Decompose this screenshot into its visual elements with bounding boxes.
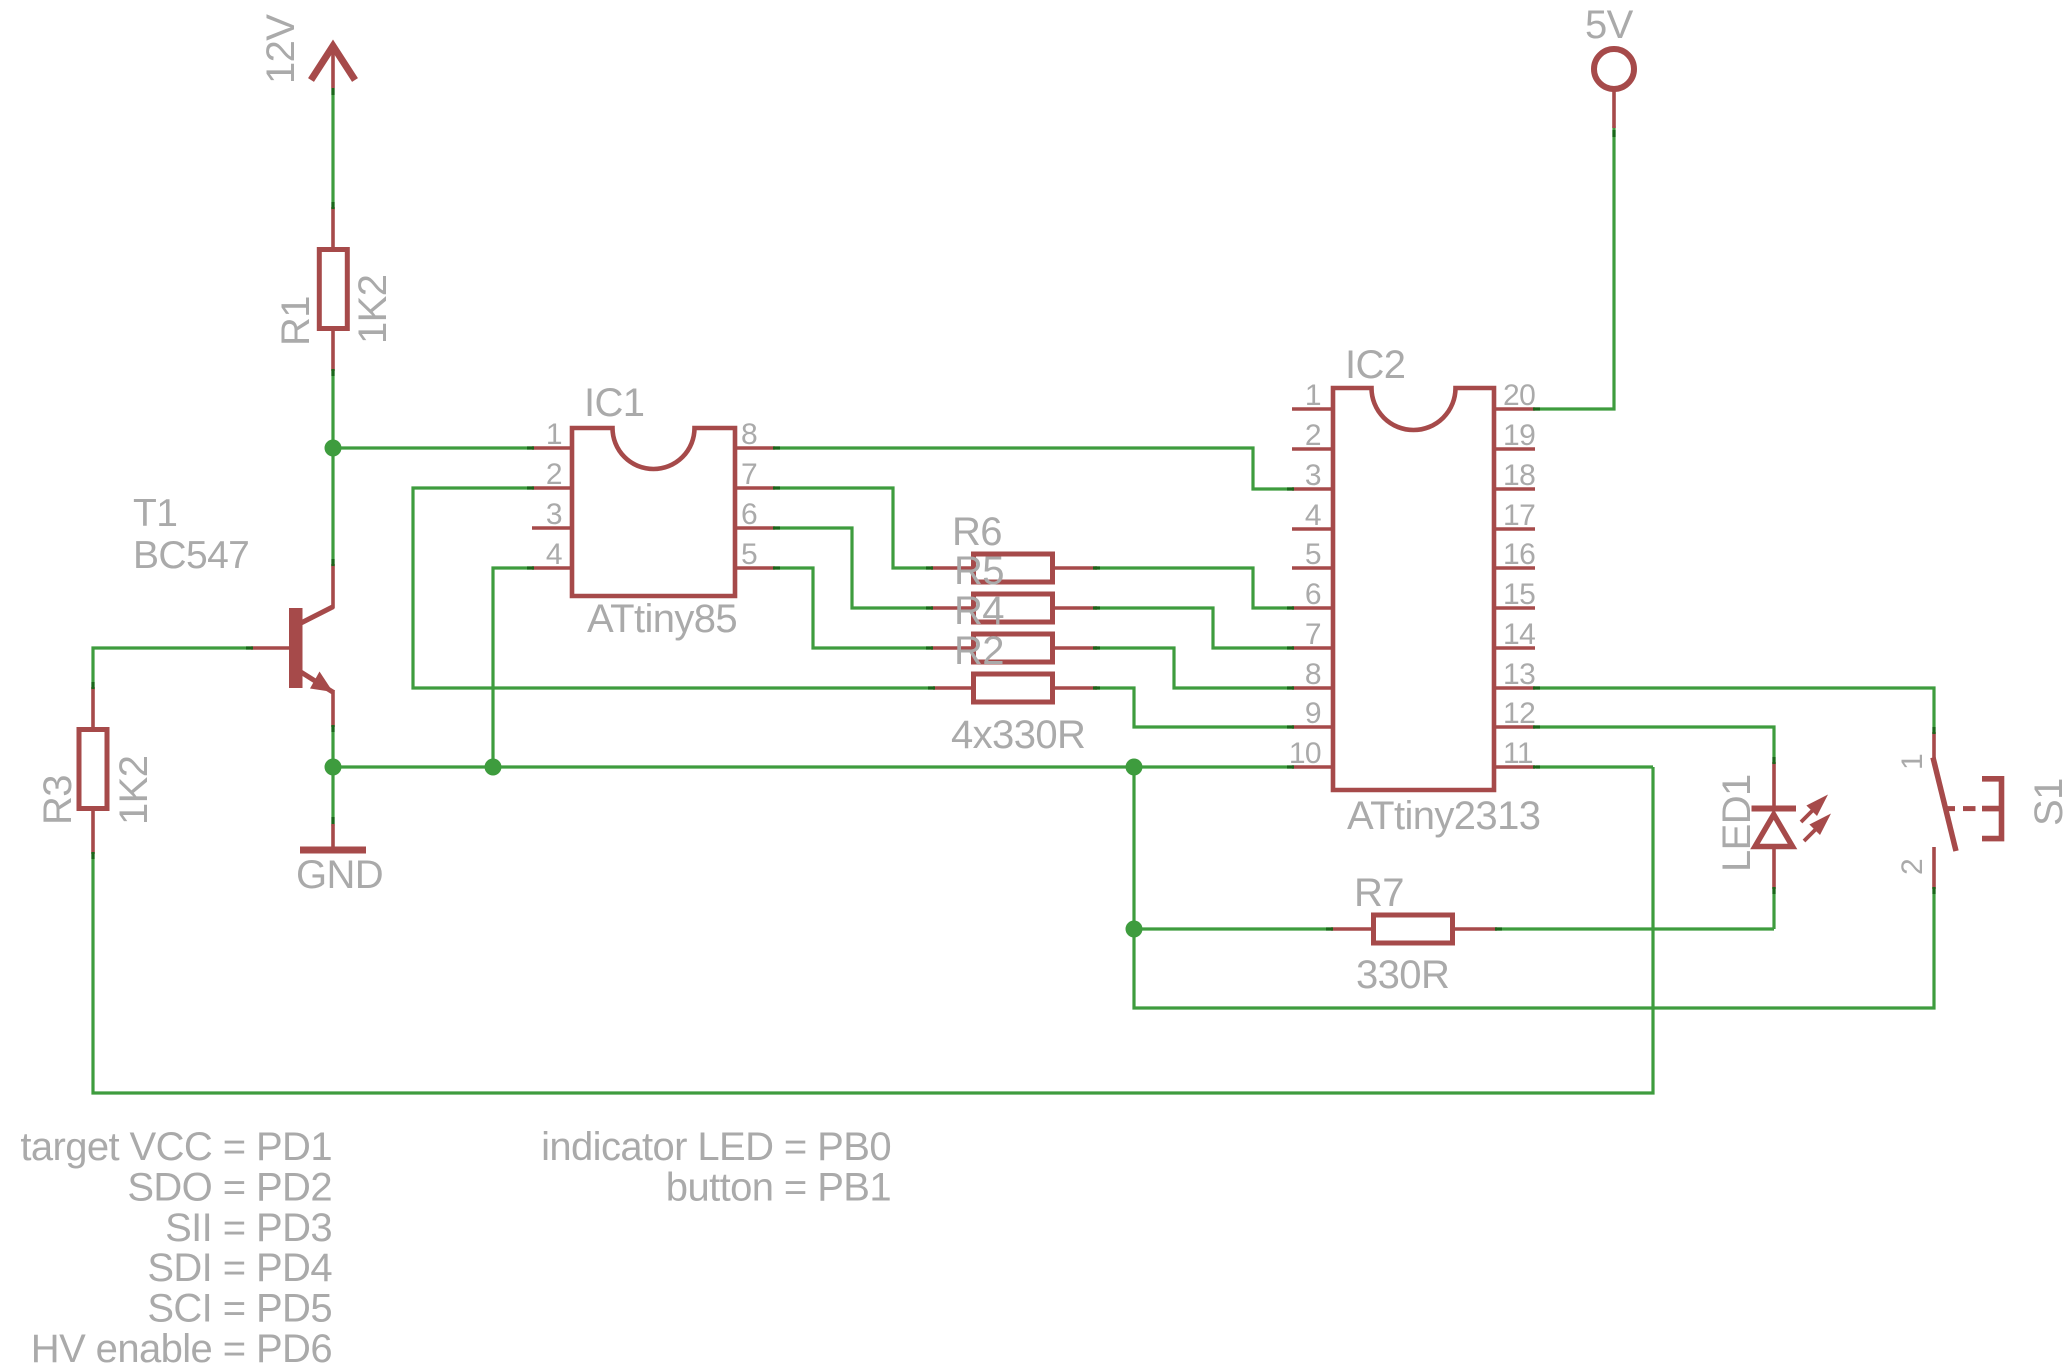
IC1 pin 6 bbox=[735, 526, 775, 530]
svg-text:2: 2 bbox=[546, 458, 562, 491]
transistor T1 base bar bbox=[289, 608, 303, 688]
resistor R2 pin 2 bbox=[1054, 686, 1097, 690]
svg-text:6: 6 bbox=[741, 498, 757, 531]
wire IC1 pin 6 to R5 bbox=[775, 528, 933, 608]
wire R7 to LED1 bbox=[1495, 927, 1774, 930]
resistor R4 bbox=[974, 634, 1053, 662]
resistor R2 pin 1 bbox=[933, 686, 975, 690]
node E junction bbox=[1126, 921, 1143, 938]
wire IC1 pin 2 to R2 bbox=[413, 488, 935, 688]
svg-text:T1: T1 bbox=[133, 492, 177, 535]
svg-text:ATtiny85: ATtiny85 bbox=[587, 597, 737, 641]
svg-text:17: 17 bbox=[1503, 499, 1535, 532]
svg-text:10: 10 bbox=[1289, 737, 1321, 770]
svg-text:IC2: IC2 bbox=[1345, 343, 1405, 387]
resistor R1 bbox=[319, 250, 347, 329]
resistor R6 pin 1 bbox=[931, 566, 973, 570]
svg-text:13: 13 bbox=[1503, 658, 1535, 691]
svg-text:5V: 5V bbox=[1585, 3, 1634, 47]
svg-text:5: 5 bbox=[1305, 538, 1321, 571]
svg-text:R3: R3 bbox=[36, 775, 80, 825]
svg-text:R1: R1 bbox=[274, 296, 318, 346]
svg-text:GND: GND bbox=[296, 853, 383, 897]
IC2 pins right bbox=[1494, 407, 1535, 411]
IC2 body bbox=[1333, 388, 1494, 790]
svg-text:7: 7 bbox=[1305, 618, 1321, 651]
resistor R4 pin 1 bbox=[931, 646, 973, 650]
wire node C to IC1 pin 4 bbox=[493, 568, 534, 767]
svg-text:1: 1 bbox=[1896, 754, 1929, 770]
wire to IC2 pin 11 bbox=[1536, 765, 1653, 768]
LED1 light arrow 1 bbox=[1801, 809, 1814, 822]
IC1 pin 5 bbox=[735, 566, 775, 570]
svg-text:SII = PD3: SII = PD3 bbox=[165, 1206, 332, 1250]
node A junction bbox=[325, 440, 342, 457]
svg-text:3: 3 bbox=[1305, 459, 1321, 492]
resistor R2 bbox=[974, 674, 1053, 702]
svg-text:1K2: 1K2 bbox=[351, 275, 395, 344]
IC1 pin 4 bbox=[532, 566, 572, 570]
node B junction bbox=[325, 759, 342, 776]
svg-text:R5: R5 bbox=[954, 549, 1004, 593]
wire node A to T1 collector bbox=[331, 448, 334, 567]
svg-text:2: 2 bbox=[1896, 859, 1929, 875]
resistor R7 pin 1 bbox=[1331, 927, 1373, 931]
wire R3 to bottom bus bbox=[93, 767, 1653, 1093]
resistor R7 bbox=[1374, 915, 1453, 943]
wire node D down to node E bbox=[1132, 767, 1135, 929]
wire node E to S1 pin 2 bbox=[1134, 887, 1934, 1008]
wire T1 emitter to node B bbox=[331, 725, 334, 767]
wire IC2 pin 13 to S1 pin 1 bbox=[1535, 688, 1934, 734]
LED1 anode pin bbox=[1772, 762, 1776, 808]
svg-text:330R: 330R bbox=[1356, 953, 1449, 997]
svg-text:8: 8 bbox=[741, 418, 757, 451]
resistor R3 pin 2 bbox=[91, 811, 95, 854]
svg-text:1K2: 1K2 bbox=[112, 756, 156, 825]
IC1 pin 8 bbox=[735, 446, 775, 450]
wire node E to R7 bbox=[1134, 927, 1333, 930]
wire LED1 to R7 net bbox=[1772, 887, 1775, 929]
LED1 triangle bbox=[1755, 815, 1793, 847]
svg-text:19: 19 bbox=[1503, 419, 1535, 452]
resistor R3 bbox=[79, 730, 107, 809]
svg-text:S1: S1 bbox=[2027, 778, 2071, 826]
svg-text:1: 1 bbox=[546, 418, 562, 451]
wire R1 to node A bbox=[331, 369, 334, 448]
svg-text:LED1: LED1 bbox=[1715, 774, 1759, 872]
IC2 pins left bbox=[1292, 407, 1333, 411]
svg-text:target VCC = PD1: target VCC = PD1 bbox=[20, 1125, 332, 1169]
LED1 light arrow 2 bbox=[1804, 828, 1817, 841]
IC1 pin 7 bbox=[735, 486, 775, 490]
resistor R7 pin 2 bbox=[1454, 927, 1497, 931]
svg-text:R7: R7 bbox=[1354, 871, 1404, 915]
resistor R5 pin 2 bbox=[1054, 606, 1097, 610]
transistor T1 emitter bbox=[300, 672, 334, 693]
switch S1 pin 1 bbox=[1932, 732, 1936, 761]
svg-text:12V: 12V bbox=[259, 14, 303, 84]
supply arrow 12V bbox=[311, 46, 355, 80]
svg-text:14: 14 bbox=[1503, 618, 1535, 651]
svg-text:18: 18 bbox=[1503, 459, 1535, 492]
svg-text:SDO = PD2: SDO = PD2 bbox=[127, 1165, 332, 1209]
svg-text:15: 15 bbox=[1503, 578, 1535, 611]
svg-text:indicator LED = PB0: indicator LED = PB0 bbox=[541, 1125, 891, 1169]
resistor R6 bbox=[974, 554, 1053, 582]
svg-text:BC547: BC547 bbox=[133, 534, 249, 577]
IC1 pin 3 bbox=[532, 526, 572, 530]
transistor T1 collector pin bbox=[331, 564, 335, 608]
wire R2 to IC2 pin 9 bbox=[1095, 688, 1294, 727]
switch S1 dashed link bbox=[1947, 806, 1956, 811]
svg-text:IC1: IC1 bbox=[584, 381, 644, 425]
svg-text:16: 16 bbox=[1503, 538, 1535, 571]
svg-text:8: 8 bbox=[1305, 658, 1321, 691]
node C junction bbox=[485, 759, 502, 776]
resistor R1 pin 2 bbox=[331, 331, 335, 371]
resistor R4 pin 2 bbox=[1054, 646, 1097, 650]
resistor R6 pin 2 bbox=[1054, 566, 1097, 570]
wire GND bus to IC2 pin 10 bbox=[333, 765, 1294, 768]
switch S1 lever bbox=[1933, 758, 1956, 852]
supply 5V circle bbox=[1594, 49, 1634, 89]
LED1 bar bbox=[1752, 806, 1797, 812]
wire IC1 pin 5 to R4 bbox=[775, 568, 933, 648]
IC1 pin 2 bbox=[532, 486, 572, 490]
svg-text:SDI = PD4: SDI = PD4 bbox=[147, 1246, 332, 1290]
svg-text:11: 11 bbox=[1503, 737, 1533, 770]
supply 5V pin bbox=[1612, 89, 1616, 128]
svg-text:HV enable = PD6: HV enable = PD6 bbox=[31, 1327, 332, 1367]
svg-text:R2: R2 bbox=[954, 629, 1004, 673]
resistor R1 pin 1 bbox=[331, 207, 335, 249]
wire IC1 pin 8 to IC2 pin 3 bbox=[775, 448, 1294, 489]
wire IC2 pin 20 to 5V bbox=[1535, 126, 1614, 409]
svg-text:3: 3 bbox=[546, 498, 562, 531]
svg-text:1: 1 bbox=[1305, 379, 1321, 412]
svg-text:4x330R: 4x330R bbox=[951, 713, 1085, 757]
svg-text:7: 7 bbox=[741, 458, 757, 491]
svg-text:12: 12 bbox=[1503, 697, 1535, 730]
svg-text:9: 9 bbox=[1305, 697, 1321, 730]
svg-text:2: 2 bbox=[1305, 419, 1321, 452]
IC1 pin 1 bbox=[532, 446, 572, 450]
wire 12V to R1 bbox=[331, 88, 334, 210]
svg-text:20: 20 bbox=[1503, 379, 1535, 412]
svg-text:6: 6 bbox=[1305, 578, 1321, 611]
svg-text:ATtiny2313: ATtiny2313 bbox=[1347, 794, 1540, 838]
LED1 cathode pin bbox=[1772, 848, 1776, 889]
resistor R5 bbox=[974, 594, 1053, 622]
wire node B to GND bbox=[331, 767, 334, 826]
wire R5 to IC2 pin 7 bbox=[1095, 608, 1294, 648]
wire IC1 pin 7 to R6 bbox=[775, 488, 933, 568]
switch S1 pin 2 bbox=[1932, 847, 1936, 889]
svg-text:4: 4 bbox=[1305, 499, 1321, 532]
switch S1 actuator bbox=[1982, 776, 2004, 841]
svg-text:5: 5 bbox=[741, 538, 757, 571]
transistor T1 base pin bbox=[251, 646, 289, 650]
wire IC2 pin 12 to LED1 bbox=[1535, 727, 1774, 764]
resistor R5 pin 1 bbox=[931, 606, 973, 610]
wire base to R3 bbox=[93, 648, 251, 690]
IC1 body bbox=[572, 428, 735, 596]
wire node A to IC1 pin 1 bbox=[333, 446, 534, 449]
svg-text:SCI = PD5: SCI = PD5 bbox=[147, 1287, 332, 1331]
svg-text:R4: R4 bbox=[954, 589, 1004, 633]
ground GND pin bbox=[331, 824, 335, 850]
resistor R3 pin 1 bbox=[91, 687, 95, 729]
svg-text:4: 4 bbox=[546, 538, 562, 571]
ground symbol bar bbox=[300, 847, 366, 854]
wire R4 to IC2 pin 8 bbox=[1095, 648, 1294, 688]
svg-text:R6: R6 bbox=[952, 510, 1002, 554]
svg-text:button = PB1: button = PB1 bbox=[666, 1165, 891, 1209]
wire-pin connection nubs bbox=[331, 88, 334, 95]
node D junction bbox=[1126, 759, 1143, 776]
wire R6 to IC2 pin 6 bbox=[1095, 568, 1294, 608]
